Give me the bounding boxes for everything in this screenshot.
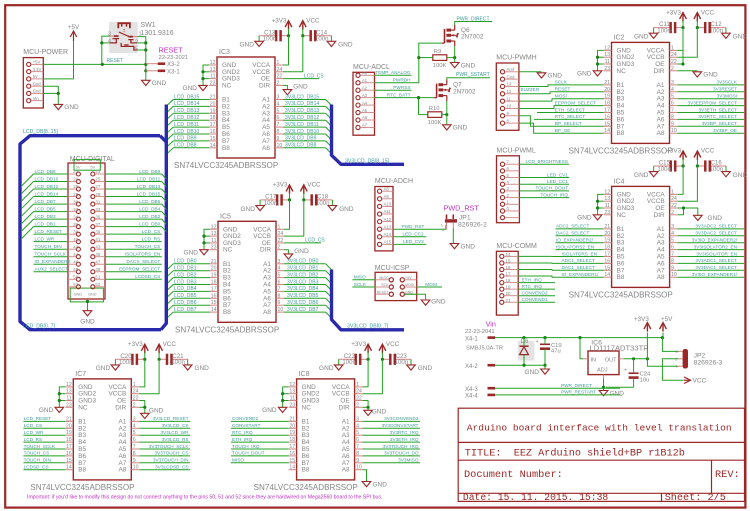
- svg-text:12: 12: [210, 60, 216, 66]
- wire IC6 IN: [580, 338, 583, 359]
- wire MCU-DIGITAL ground: [87, 299, 89, 311]
- svg-text:LCD_DB11: LCD_DB11: [174, 122, 199, 128]
- wire VCCB supply: [678, 28, 698, 58]
- wire C19: [544, 338, 546, 345]
- wire RTC_BATT to R10: [418, 98, 420, 115]
- svg-text:TITLE: EEZ Arduino shield+BP: TITLE: EEZ Arduino shield+BP r1B12b: [465, 448, 685, 460]
- svg-text:B8: B8: [302, 467, 310, 474]
- svg-text:3V3LCD_DB6: 3V3LCD_DB6: [287, 300, 319, 306]
- capacitor C24: [624, 368, 651, 384]
- wire RTC_IRQ: [231, 434, 289, 436]
- transistor Q7: [434, 80, 476, 101]
- svg-text:7: 7: [278, 286, 281, 292]
- svg-text:3V3TOUCH_DIN: 3V3TOUCH_DIN: [153, 458, 189, 463]
- ground: [577, 71, 602, 78]
- svg-text:LCD_DB12: LCD_DB12: [174, 115, 200, 121]
- wire 3V3TOUCH_DO: [363, 455, 420, 457]
- svg-text:X4-2: X4-2: [465, 364, 478, 370]
- svg-text:9: 9: [671, 265, 674, 271]
- svg-text:11: 11: [66, 396, 71, 402]
- svg-text:GND: GND: [405, 290, 413, 294]
- svg-text:25: 25: [95, 177, 100, 182]
- svg-text:3: 3: [356, 416, 359, 422]
- wire 3V3CONVEND2: [363, 420, 420, 422]
- svg-text:A7: A7: [362, 123, 368, 128]
- svg-text:LCD_DB3: LCD_DB3: [174, 279, 197, 285]
- wire LCD_DB5: [173, 297, 210, 299]
- wire EEPROM_SELECT (MCU-DIGITAL right): [105, 271, 162, 273]
- svg-text:100n: 100n: [710, 166, 724, 173]
- svg-text:12: 12: [604, 189, 610, 195]
- svg-text:GND: GND: [461, 62, 476, 69]
- wire VCCB supply IC7: [139, 359, 159, 393]
- svg-text:3V3CONVEND2: 3V3CONVEND2: [384, 416, 419, 421]
- wire 3V3LCD_RS: [139, 441, 190, 443]
- wire supply rails: [144, 352, 146, 359]
- wire C19 ground drop: [544, 365, 546, 369]
- wire 3V3TOUCH_IRQ: [363, 448, 420, 450]
- svg-text:LCD_DB7: LCD_DB7: [174, 307, 197, 313]
- wire OE LCD_CS IC3: [283, 78, 319, 80]
- svg-text:3V3LCD_DB11: 3V3LCD_DB11: [285, 122, 319, 128]
- wire LCD_DB0 (MCU-DIGITAL right): [105, 226, 162, 228]
- svg-text:3V3LCD_DB[0..7]: 3V3LCD_DB[0..7]: [347, 323, 389, 329]
- svg-text:+3V3: +3V3: [351, 341, 366, 348]
- svg-text:7: 7: [133, 444, 136, 450]
- svg-text:BP_OE: BP_OE: [555, 128, 571, 133]
- svg-text:1: 1: [278, 224, 281, 230]
- ground: [262, 407, 287, 414]
- wire IC ground pins: [203, 65, 209, 85]
- diode D6 SMBJ5.0A-TR: [466, 338, 534, 360]
- svg-text:4: 4: [356, 423, 359, 429]
- svg-text:Gnd: Gnd: [33, 81, 42, 86]
- pin X4-1: [465, 337, 495, 343]
- svg-text:3V3LCD_DB8: 3V3LCD_DB8: [285, 143, 317, 149]
- wire C24: [633, 359, 635, 373]
- svg-text:12: 12: [66, 382, 72, 388]
- pin X4-2: [465, 364, 495, 370]
- svg-text:LCD_DB10: LCD_DB10: [174, 129, 200, 135]
- supply VCC: [379, 341, 400, 353]
- svg-text:9: 9: [277, 136, 280, 142]
- capacitor C15: [657, 160, 675, 173]
- svg-text:ETH_IRQ: ETH_IRQ: [232, 437, 253, 442]
- wire 3V3ISOLATOR2_EN: [678, 249, 744, 251]
- svg-text:3V3RESET: 3V3RESET: [713, 87, 737, 92]
- svg-text:16: 16: [604, 258, 610, 264]
- wire MCU-PWMH pin to IC2 B2: [519, 92, 604, 94]
- wire LCD_DB8 (MCU-DIGITAL left): [34, 173, 69, 175]
- svg-text:TOUCH_DOUT: TOUCH_DOUT: [232, 451, 265, 456]
- wire ADC2_SELECT: [556, 228, 604, 230]
- svg-text:IC3: IC3: [219, 49, 230, 56]
- svg-text:3V3MOSI: 3V3MOSI: [717, 94, 737, 99]
- svg-text:11: 11: [290, 396, 295, 402]
- wire VCCA supply: [678, 28, 684, 51]
- svg-text:PWR_SSTART: PWR_SSTART: [456, 72, 490, 78]
- svg-text:3V3ETH_IRQ: 3V3ETH_IRQ: [390, 437, 419, 442]
- svg-text:+: +: [536, 339, 539, 345]
- wire IC ground pins: [59, 387, 65, 407]
- svg-text:15: 15: [289, 458, 295, 464]
- svg-text:6: 6: [671, 245, 674, 251]
- svg-text:+3V3: +3V3: [666, 148, 681, 155]
- wire +5V to 5V pin: [43, 41, 73, 79]
- wire 3V3IO_EXPANDER2/: [678, 242, 744, 244]
- wire LCD_DB2 (MCU-DIGITAL right): [105, 218, 162, 220]
- svg-text:2: 2: [356, 402, 359, 408]
- wire MCU-PWMH pin to IC2 B3: [519, 99, 604, 101]
- wire TOUCH_IRQ: [519, 197, 569, 199]
- svg-text:GND: GND: [262, 407, 277, 414]
- ground: [693, 72, 718, 79]
- svg-text:LCD_CS: LCD_CS: [304, 73, 324, 79]
- svg-text:NC: NC: [617, 212, 627, 219]
- svg-text:7: 7: [671, 108, 674, 114]
- svg-text:LCD_DB15: LCD_DB15: [137, 191, 161, 196]
- svg-text:IC4: IC4: [614, 178, 625, 185]
- pin X3-1: [146, 69, 181, 75]
- svg-text:2: 2: [278, 245, 281, 251]
- svg-text:3V3RTC_IRQ: 3V3RTC_IRQ: [390, 430, 419, 435]
- wire PWD_RST net: [393, 225, 446, 229]
- svg-text:PWD_RST: PWD_RST: [402, 224, 425, 229]
- svg-text:19: 19: [289, 430, 295, 436]
- wire 3V3CONVSTART: [363, 427, 420, 429]
- svg-text:Document Number:: Document Number:: [464, 469, 563, 481]
- svg-text:18: 18: [211, 280, 217, 286]
- svg-text:7: 7: [671, 252, 674, 258]
- wire RTC_SELECT: [534, 118, 604, 120]
- svg-text:X4-1: X4-1: [465, 337, 478, 343]
- svg-text:B8: B8: [617, 130, 625, 137]
- svg-text:48: 48: [73, 267, 78, 272]
- svg-text:18: 18: [506, 278, 512, 283]
- IC IC8 SN74LVCC3245ADBRSSOP: [254, 371, 363, 492]
- svg-text:GND: GND: [74, 293, 83, 297]
- wire MCU-COMM to IC4 B8: [518, 276, 603, 277]
- svg-text:19: 19: [604, 94, 610, 100]
- wire 3V3LCD_DB14: [283, 105, 326, 107]
- svg-text:23: 23: [66, 402, 72, 408]
- wire DIR to ground IC5: [284, 250, 288, 254]
- wire LCD_DB11 (MCU-DIGITAL right): [105, 181, 162, 183]
- ground: [443, 125, 468, 132]
- svg-text:3V3TOUCH_SCLK: 3V3TOUCH_SCLK: [149, 444, 190, 449]
- ground: [240, 206, 264, 213]
- svg-text:19: 19: [66, 430, 72, 436]
- wire CONVEND2: [231, 420, 289, 422]
- svg-text:100n: 100n: [342, 359, 356, 366]
- svg-text:+5V: +5V: [405, 276, 412, 280]
- wire PWR_DIRECT: [455, 22, 492, 26]
- svg-text:GND: GND: [339, 206, 354, 213]
- svg-text:MCU-ICSP: MCU-ICSP: [375, 265, 410, 272]
- wire 3V3LCDSD_CS: [139, 469, 190, 471]
- wire SCLK (ICSP): [352, 286, 375, 288]
- svg-text:GND: GND: [634, 172, 649, 179]
- wire 3V3LCD_DB0: [284, 263, 326, 265]
- wire 3V3MOSI: [678, 98, 745, 100]
- wire 3V3LCD_DB2: [284, 277, 326, 279]
- svg-text:8: 8: [671, 114, 674, 120]
- supply +5V: [660, 316, 674, 332]
- transistor Q6: [442, 25, 484, 46]
- svg-text:+3V3: +3V3: [666, 9, 681, 16]
- ground: [722, 33, 748, 40]
- svg-text:VCC: VCC: [307, 182, 321, 189]
- supply +5V: [68, 24, 80, 41]
- svg-text:TOUCH_SCLK: TOUCH_SCLK: [35, 252, 67, 257]
- svg-text:IC5: IC5: [220, 213, 231, 220]
- svg-text:RESET: RESET: [159, 46, 184, 55]
- svg-text:TOUCH_CS: TOUCH_CS: [24, 451, 50, 456]
- svg-text:LCD_DB2: LCD_DB2: [139, 214, 160, 219]
- supply +3V3: [128, 341, 148, 353]
- wire ETH_IRQ: [231, 441, 289, 443]
- wire ISOLATORS2_EN: [556, 249, 604, 251]
- svg-text:GND: GND: [461, 243, 476, 250]
- supply VCC: [300, 182, 321, 194]
- svg-text:5V: 5V: [76, 165, 81, 169]
- svg-text:DAC2_SELECT: DAC2_SELECT: [556, 231, 589, 236]
- svg-text:AUX2_SELECT: AUX2_SELECT: [35, 267, 68, 272]
- svg-text:GND: GND: [610, 390, 625, 397]
- wire LCD_WR (MCU-DIGITAL left): [34, 241, 69, 243]
- svg-text:21: 21: [604, 80, 610, 86]
- svg-text:3V3ADC2_SELECT: 3V3ADC2_SELECT: [695, 224, 737, 229]
- wire DIR to ground IC3: [283, 85, 287, 89]
- ground: [183, 85, 208, 92]
- svg-text:B8: B8: [78, 467, 86, 474]
- wire LCD_DB13: [173, 112, 209, 114]
- ground: [54, 104, 79, 111]
- svg-text:DACS_SELECT: DACS_SELECT: [126, 259, 160, 264]
- connector MCU-POWER: [23, 49, 68, 108]
- ground: [694, 215, 723, 222]
- wire Q7 source to ground: [446, 101, 448, 125]
- wire +5V rail: [495, 337, 662, 339]
- svg-text:39: 39: [95, 229, 100, 234]
- svg-text:Sheet: 2/5: Sheet: 2/5: [665, 492, 726, 504]
- svg-text:3V3ETH_SELECT: 3V3ETH_SELECT: [698, 107, 737, 112]
- svg-text:9: 9: [278, 300, 281, 306]
- supply +3V3: [351, 341, 371, 353]
- svg-text:13: 13: [289, 389, 295, 395]
- svg-text:IC2: IC2: [614, 34, 625, 41]
- svg-text:3V3TOUCH_CS: 3V3TOUCH_CS: [154, 451, 188, 456]
- svg-text:3V3LCD_DB[8..15]: 3V3LCD_DB[8..15]: [345, 158, 390, 164]
- svg-text:22: 22: [73, 169, 78, 174]
- wire 3V3LCD_DB15: [283, 99, 326, 101]
- wire 3V3ADC1_SELECT: [678, 262, 744, 264]
- svg-text:13: 13: [211, 231, 217, 237]
- svg-text:A13: A13: [384, 224, 392, 229]
- svg-text:21: 21: [210, 95, 216, 101]
- svg-text:24: 24: [277, 67, 283, 73]
- ground: [722, 172, 748, 179]
- svg-text:GND: GND: [96, 365, 111, 372]
- svg-text:MOSI: MOSI: [405, 283, 414, 287]
- wire 3V3IO_EXPANDER1/: [678, 276, 744, 278]
- svg-text:LCD_DB0: LCD_DB0: [139, 221, 160, 226]
- supply VCC: [299, 17, 320, 29]
- wire LCDSD_CS: [23, 469, 65, 471]
- svg-text:8: 8: [671, 258, 674, 264]
- svg-text:IO_EXPANDER2/: IO_EXPANDER2/: [556, 238, 594, 243]
- svg-text:+: +: [624, 368, 627, 374]
- svg-text:MCU-ADCH: MCU-ADCH: [375, 178, 413, 185]
- wire +3V3 arrow drop / JP2 pin1: [647, 333, 678, 367]
- svg-text:GND: GND: [525, 369, 540, 376]
- svg-text:TOUCH_IRQ: TOUCH_IRQ: [232, 444, 260, 449]
- svg-text:3V3LCD_RS: 3V3LCD_RS: [162, 437, 189, 442]
- svg-text:7: 7: [277, 122, 280, 128]
- svg-text:22: 22: [671, 59, 677, 65]
- svg-text:SCLK: SCLK: [354, 282, 367, 287]
- ground: [577, 215, 602, 222]
- svg-text:PWR_RESTART: PWR_RESTART: [561, 390, 596, 395]
- supply VCC: [694, 148, 715, 160]
- svg-text:LED_CV2: LED_CV2: [403, 239, 424, 244]
- svg-text:MCU-COMM: MCU-COMM: [496, 243, 537, 250]
- title block: [458, 408, 744, 504]
- svg-text:40: 40: [73, 237, 78, 242]
- wire CONVEND1: [518, 301, 555, 303]
- wire 3V3DAC1_SELECT: [678, 269, 744, 271]
- ground: [525, 369, 550, 376]
- svg-text:RTC_IRQ: RTC_IRQ: [522, 284, 543, 289]
- wire LCD_DB6 (MCU-DIGITAL right): [105, 203, 162, 205]
- svg-text:12: 12: [211, 224, 217, 230]
- wire LCD_DB7: [173, 311, 210, 313]
- svg-text:LCD_DB4: LCD_DB4: [139, 206, 160, 211]
- ground: [599, 390, 624, 397]
- svg-text:BUZZER: BUZZER: [521, 87, 540, 92]
- ground: [327, 41, 353, 48]
- wire 3V3LCD_DB5: [284, 297, 326, 299]
- wire JP1 pin2 to ground: [452, 228, 454, 244]
- svg-text:GND: GND: [240, 206, 255, 213]
- svg-text:27: 27: [95, 184, 100, 189]
- svg-text:24: 24: [356, 389, 362, 395]
- svg-text:SCLK: SCLK: [555, 80, 568, 85]
- wire LCD_DB4: [173, 290, 210, 292]
- svg-text:RESET: RESET: [377, 290, 390, 294]
- wire MCU-PWMH Gnd: [519, 71, 542, 73]
- svg-text:22: 22: [277, 74, 283, 80]
- wire 3V3LCD_RESET: [139, 420, 190, 422]
- svg-text:MOSI: MOSI: [425, 282, 437, 287]
- svg-text:MCU-POWER: MCU-POWER: [23, 49, 68, 56]
- svg-text:GND: GND: [703, 72, 718, 79]
- supply +3V3: [634, 316, 651, 332]
- svg-text:GND: GND: [431, 299, 446, 306]
- switch SW1 1301.9316: [108, 22, 174, 53]
- svg-text:16: 16: [289, 451, 295, 457]
- connector MCU-PWML: [497, 147, 536, 222]
- IC IC4 SN74LVCC3245ADBRSSOP: [569, 178, 678, 299]
- svg-text:3V3LCD_DB15: 3V3LCD_DB15: [285, 94, 319, 100]
- wire LCD_BRIGHTNESS: [519, 163, 569, 165]
- svg-text:9: 9: [671, 121, 674, 127]
- resistor R10: [428, 106, 442, 126]
- svg-text:826926-3: 826926-3: [694, 359, 723, 366]
- wire 3V3BP_SELECT: [678, 125, 745, 127]
- svg-text:MOSI: MOSI: [555, 94, 567, 99]
- svg-text:100n: 100n: [316, 200, 330, 207]
- svg-text:3V3DAC1_SELECT: 3V3DAC1_SELECT: [695, 265, 737, 270]
- svg-text:A1: A1: [362, 78, 368, 83]
- svg-text:10: 10: [507, 104, 512, 109]
- svg-text:Vin: Vin: [33, 96, 40, 101]
- svg-text:3V3BP_OE: 3V3BP_OE: [713, 128, 737, 133]
- svg-text:GND: GND: [184, 250, 199, 257]
- wire R9: [419, 57, 433, 59]
- wire LCD_DB8: [173, 147, 209, 149]
- svg-text:3V3LCD_DB1: 3V3LCD_DB1: [287, 266, 319, 272]
- wire LED_CV1: [519, 177, 569, 179]
- svg-text:2: 2: [133, 402, 136, 408]
- wire LED_CV2: [393, 243, 426, 245]
- svg-text:B8: B8: [223, 309, 231, 316]
- supply VCC (right arrow): [684, 377, 707, 385]
- svg-text:ADJ: ADJ: [597, 368, 608, 374]
- svg-text:10: 10: [278, 307, 284, 313]
- svg-text:100n: 100n: [263, 36, 277, 43]
- svg-text:JP2: JP2: [694, 352, 706, 359]
- svg-text:29: 29: [95, 192, 100, 197]
- svg-text:3V3DAC2_SELECT: 3V3DAC2_SELECT: [695, 231, 737, 236]
- svg-text:A0: A0: [362, 71, 368, 76]
- svg-text:21: 21: [506, 298, 512, 303]
- wire LCD_DB13 (MCU-DIGITAL right): [105, 188, 162, 190]
- svg-text:26: 26: [73, 184, 78, 189]
- wire LCD_RESET (MCU-DIGITAL left): [34, 233, 69, 235]
- svg-text:20: 20: [66, 423, 72, 429]
- svg-text:IO_EXPANDERS: IO_EXPANDERS: [35, 259, 71, 264]
- capacitor C12: [705, 21, 723, 34]
- wire ICSP GND pin: [405, 294, 426, 300]
- wire 3V3TOUCH_DIN: [139, 462, 190, 464]
- wire AUX2_SELECT (MCU-DIGITAL left): [34, 271, 69, 273]
- svg-text:3V3LCD_DB12: 3V3LCD_DB12: [285, 115, 319, 121]
- supply +3V3: [666, 9, 686, 21]
- wire RTC_BATT: [375, 97, 435, 99]
- wire VCCB supply IC8: [363, 359, 383, 393]
- svg-text:LCD_DB[0..7]: LCD_DB[0..7]: [23, 323, 56, 329]
- wire MCU-COMM to IC4 B6: [518, 262, 603, 264]
- wire BP_OE: [519, 123, 604, 133]
- svg-text:NC: NC: [302, 404, 312, 411]
- svg-text:3V3ADC1_SELECT: 3V3ADC1_SELECT: [695, 258, 737, 263]
- svg-text:A6: A6: [362, 115, 368, 120]
- svg-text:ISOLATORS2_EN: ISOLATORS2_EN: [556, 244, 594, 249]
- svg-text:LCD_CS: LCD_CS: [142, 229, 161, 234]
- wire ADJ ground rail: [606, 386, 634, 388]
- capacitor C19: [536, 339, 562, 355]
- svg-text:100n: 100n: [171, 359, 185, 366]
- svg-text:6: 6: [133, 437, 136, 443]
- wire 3V3MISO: [363, 462, 420, 464]
- svg-text:LCD_DB9: LCD_DB9: [139, 169, 160, 174]
- svg-text:TOUCH_DOUT: TOUCH_DOUT: [536, 186, 569, 191]
- svg-text:A11: A11: [384, 209, 392, 214]
- svg-text:LCD_DB4: LCD_DB4: [174, 286, 197, 292]
- wire LCD_DB14: [173, 105, 209, 107]
- connector MCU-ADCH: [375, 178, 413, 251]
